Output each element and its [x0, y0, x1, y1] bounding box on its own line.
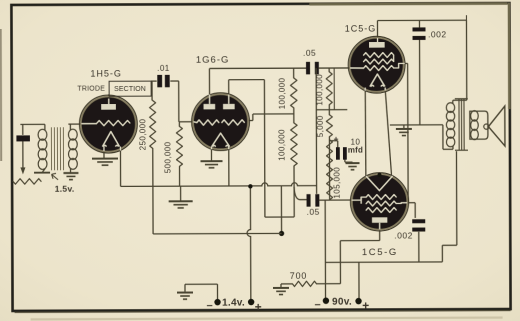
svg-text:+: +: [362, 299, 370, 313]
svg-text:1G6-G: 1G6-G: [196, 55, 230, 66]
svg-text:mfd: mfd: [348, 146, 363, 155]
svg-text:.002: .002: [428, 29, 447, 39]
svg-text:.05: .05: [307, 207, 320, 217]
svg-text:.002: .002: [394, 230, 413, 240]
svg-text:SECTION: SECTION: [114, 86, 146, 93]
svg-text:–: –: [315, 299, 322, 311]
svg-text:.01: .01: [157, 64, 170, 73]
svg-text:100,000: 100,000: [278, 77, 287, 109]
svg-text:1C5-G: 1C5-G: [345, 24, 377, 34]
svg-text:+: +: [255, 300, 263, 314]
svg-text:700: 700: [290, 271, 307, 281]
svg-text:+: +: [334, 134, 340, 144]
svg-text:250,000: 250,000: [138, 118, 147, 150]
svg-text:105,000: 105,000: [333, 167, 342, 199]
svg-text:–: –: [207, 300, 214, 312]
svg-text:90v.: 90v.: [332, 297, 352, 308]
svg-text:1.5v.: 1.5v.: [55, 184, 75, 194]
svg-text:1C5-G: 1C5-G: [362, 247, 398, 258]
svg-text:.05: .05: [303, 48, 316, 58]
svg-text:500,000: 500,000: [163, 141, 172, 173]
svg-text:TRIODE: TRIODE: [77, 86, 105, 93]
svg-text:5,000: 5,000: [316, 115, 325, 137]
svg-text:1.4v.: 1.4v.: [222, 298, 245, 309]
svg-text:1H5-G: 1H5-G: [90, 69, 122, 79]
svg-text:100,000: 100,000: [277, 129, 286, 161]
svg-text:100,000: 100,000: [315, 74, 324, 106]
